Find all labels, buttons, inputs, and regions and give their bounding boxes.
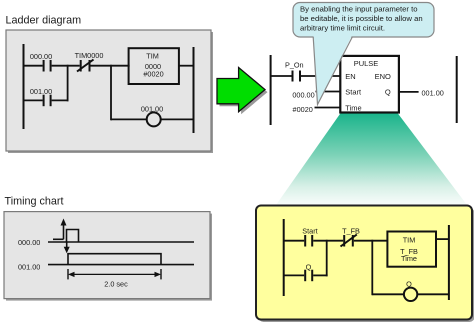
svg-text:#0020: #0020	[293, 105, 313, 114]
green arrow	[217, 68, 265, 112]
svg-text:001.00: 001.00	[30, 87, 52, 96]
right power rail (ladder 3)	[448, 225, 450, 300]
svg-text:001.00: 001.00	[141, 105, 163, 114]
green arrow shadow	[220, 70, 268, 114]
left power rail (ladder 3)	[283, 219, 285, 296]
contact T_FB (NC)	[341, 235, 357, 247]
wire: rung 2	[23, 99, 69, 101]
svg-text:Start: Start	[302, 227, 317, 236]
trace 001.00 baseline	[48, 264, 194, 266]
svg-text:ENO: ENO	[375, 72, 391, 81]
trace 000.00 baseline	[48, 241, 194, 243]
svg-text:arbitrary time limit circuit.: arbitrary time limit circuit.	[300, 24, 385, 33]
left power rail (ladder 1)	[23, 44, 25, 129]
function block PULSE	[340, 56, 399, 113]
svg-text:EN: EN	[345, 72, 355, 81]
labels TIM / T_FB / Time	[400, 236, 418, 263]
wire: Q output	[399, 91, 419, 93]
svg-text:001.00: 001.00	[18, 263, 40, 272]
svg-text:By enabling the input paramete: By enabling the input parameter to	[300, 5, 418, 14]
callout tail	[314, 36, 353, 105]
timer box TIM (ladder 3)	[387, 232, 436, 267]
wire: junction drop to output rung	[110, 65, 112, 121]
panel: ladder diagram frame	[6, 30, 213, 153]
dimension arrow 2.0 sec	[68, 272, 161, 277]
svg-text:Q: Q	[406, 280, 412, 289]
wire: Start input	[316, 91, 341, 93]
left power rail (ladder 2)	[270, 55, 272, 125]
wire: rung 1	[23, 65, 130, 67]
trace 000.00 pulse	[67, 230, 79, 243]
contact Start	[305, 235, 312, 247]
rising edge arrow (up)	[61, 219, 67, 240]
timer box TIM	[129, 48, 179, 84]
right power rail (ladder 2)	[456, 56, 458, 123]
contact P_On	[293, 71, 301, 82]
contact 000.00 (NO)	[44, 60, 51, 72]
svg-text:Q: Q	[385, 87, 391, 96]
highlight beam	[276, 114, 467, 206]
trigger arrow (down)	[64, 242, 70, 253]
coil 001.00	[147, 112, 161, 126]
svg-text:PULSE: PULSE	[354, 59, 379, 68]
svg-text:2.0 sec: 2.0 sec	[104, 280, 128, 289]
panel: timing chart frame	[4, 212, 212, 301]
svg-text:Time: Time	[401, 254, 417, 263]
svg-text:TIM0000: TIM0000	[75, 51, 104, 60]
wire: TIM to right rail (ladder 3)	[436, 238, 449, 240]
svg-text:TIM: TIM	[146, 52, 159, 61]
dimension delimiters	[68, 269, 161, 279]
wire: rung 1 (ladder 3)	[283, 240, 387, 242]
svg-text:Start: Start	[345, 87, 362, 96]
wire: parallel branch vertical	[67, 65, 69, 102]
svg-text:P_On: P_On	[285, 60, 304, 69]
svg-text:Ladder diagram: Ladder diagram	[6, 15, 82, 27]
svg-text:#0020: #0020	[143, 70, 163, 79]
svg-text:TIM: TIM	[403, 236, 416, 245]
svg-text:000.00: 000.00	[18, 238, 40, 247]
callout text	[300, 5, 423, 33]
wire: TIM to right rail	[179, 65, 194, 67]
contact Q	[305, 270, 312, 282]
expanded circuit panel	[256, 206, 474, 323]
wire: P_On rung	[270, 75, 340, 77]
labels TIM / 0000 / #0020	[143, 52, 163, 79]
wire: drop to coil rung (ladder 3)	[371, 240, 373, 295]
coil Q (ladder 3)	[404, 288, 417, 301]
svg-text:be editable, it is possible to: be editable, it is possible to allow an	[300, 14, 423, 23]
wire: output rung	[111, 118, 194, 120]
wire: Time input	[315, 107, 341, 109]
svg-text:Q: Q	[306, 262, 312, 271]
wire: rung 2 (ladder 3)	[283, 274, 328, 276]
trace 000.00 pre-pulse segment	[53, 238, 64, 240]
right power rail (ladder 1)	[193, 47, 195, 133]
svg-text:Time: Time	[345, 103, 361, 112]
svg-text:001.00: 001.00	[422, 88, 444, 97]
wire: coil rung (ladder 3)	[372, 293, 449, 295]
callout bubble	[293, 3, 434, 38]
svg-text:000.00: 000.00	[292, 91, 314, 100]
contact TIM0000 (NC)	[77, 60, 94, 72]
trace 001.00 pulse	[68, 254, 161, 265]
wire: branch vertical (ladder 3)	[326, 240, 328, 276]
svg-text:T_FB: T_FB	[342, 227, 360, 236]
contact 001.00 (NO)	[44, 95, 51, 107]
svg-text:Timing chart: Timing chart	[5, 195, 64, 207]
svg-text:000.00: 000.00	[30, 52, 52, 61]
